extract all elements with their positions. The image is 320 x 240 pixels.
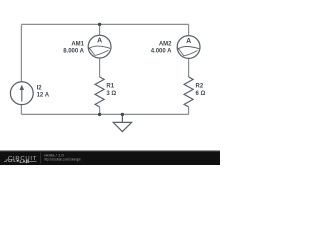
wire AM1 top stub bbox=[99, 24, 101, 35]
resistor R1 bbox=[95, 77, 104, 107]
wire top horizontal bbox=[21, 23, 188, 25]
wire R2 bottom stub bbox=[188, 107, 190, 115]
wire bottom horizontal bbox=[21, 113, 188, 115]
wire I2 bottom stub bbox=[20, 105, 22, 115]
svg-text:R1: R1 bbox=[106, 84, 114, 90]
current source I2 bbox=[10, 82, 33, 105]
node junction ground bbox=[121, 113, 124, 116]
svg-text:LAB: LAB bbox=[20, 159, 30, 164]
svg-text:A: A bbox=[186, 38, 191, 45]
wire R1 bottom stub bbox=[99, 107, 101, 115]
svg-text:4.000 A: 4.000 A bbox=[151, 48, 172, 54]
svg-text:3 Ω: 3 Ω bbox=[106, 91, 116, 97]
svg-text:AM1: AM1 bbox=[71, 41, 84, 47]
wire AM1 to R1 bbox=[99, 58, 101, 77]
logo pulse block bbox=[17, 160, 19, 162]
svg-text:A: A bbox=[97, 37, 102, 44]
node junction bottom R1 bbox=[98, 113, 101, 116]
svg-text:8.000 A: 8.000 A bbox=[63, 48, 84, 54]
svg-text:I2: I2 bbox=[37, 85, 43, 91]
logo waveform bbox=[4, 160, 16, 162]
svg-text:6 Ω: 6 Ω bbox=[196, 91, 206, 97]
logo underline bbox=[29, 161, 37, 163]
wire AM2 to R2 bbox=[188, 58, 190, 77]
svg-text:http://circuitlab.com/c/dwnqjd: http://circuitlab.com/c/dwnqjdr bbox=[44, 158, 81, 162]
svg-text:AM2: AM2 bbox=[159, 41, 172, 47]
ground bbox=[113, 114, 131, 131]
footer separator bbox=[40, 153, 42, 164]
footer bar bbox=[0, 151, 220, 165]
ammeter AM2 bbox=[177, 36, 200, 59]
wire AM2 top stub bbox=[188, 24, 190, 35]
svg-text:R2: R2 bbox=[196, 84, 204, 90]
wire left vertical bbox=[20, 24, 22, 82]
resistor R2 bbox=[184, 77, 193, 107]
node junction top AM1 bbox=[98, 23, 101, 26]
svg-text:12 A: 12 A bbox=[37, 93, 50, 99]
ammeter AM1 bbox=[88, 35, 111, 58]
